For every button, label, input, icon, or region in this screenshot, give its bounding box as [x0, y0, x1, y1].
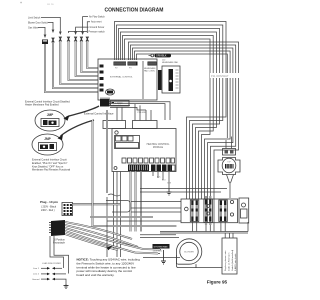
module top cover connectors — [103, 104, 157, 129]
connector gas valve plug — [42, 40, 48, 45]
bus group1 wire a — [115, 22, 227, 200]
jumper callout ellipse 2 — [32, 134, 63, 155]
svg-text:MEMBRANE PAD: MEMBRANE PAD — [162, 61, 179, 64]
wire fan from receptacle — [65, 222, 160, 254]
wire 3 — [60, 41, 98, 84]
svg-text:PAD CONN.: PAD CONN. — [144, 70, 155, 73]
svg-text:Heater Membrane Pad Enabled: Heater Membrane Pad Enabled — [25, 104, 59, 107]
wire 5 — [76, 41, 98, 76]
bus group2 wire e — [137, 54, 228, 138]
connector 4 — [67, 37, 69, 41]
svg-text:P11 ORN/WHT: P11 ORN/WHT — [211, 74, 229, 78]
arrow to ellipse 2 — [61, 120, 95, 136]
wire 1 — [45, 44, 98, 92]
squiggle crossing — [108, 194, 120, 196]
horizontal wires to contactor — [140, 189, 227, 193]
svg-text:LOAD SIDE POWER: LOAD SIDE POWER — [42, 262, 61, 265]
svg-text:Figure 95: Figure 95 — [207, 279, 228, 284]
bus group2 wire c — [133, 48, 233, 222]
svg-text:GRN: GRN — [167, 183, 172, 185]
box U1 external control interface — [98, 59, 157, 100]
svg-text:P14 GRN: P14 GRN — [138, 112, 147, 114]
bus group2 wire b — [131, 45, 236, 222]
svg-text:Blower Door Switch: Blower Door Switch — [28, 21, 49, 24]
harness verticals — [93, 110, 177, 257]
svg-text:External Control Interface: External Control Interface — [84, 112, 114, 116]
svg-text:Switch (field installed): Switch (field installed) — [231, 250, 234, 271]
svg-text:Auto reset: Auto reset — [91, 21, 102, 24]
bus group1 wire d — [121, 32, 217, 199]
label auto reset — [87, 21, 102, 33]
bus group1 wire e — [123, 36, 214, 200]
svg-text:JMP: JMP — [44, 137, 51, 141]
connector J2 strip — [148, 62, 157, 66]
callout text enabled — [32, 159, 71, 172]
blower label black tag — [153, 244, 170, 253]
svg-text:Receptacle: Receptacle — [53, 242, 66, 245]
arrow to ellipse 1 — [67, 106, 100, 117]
wire 4 — [69, 41, 99, 80]
bus to blower top — [160, 222, 248, 233]
wires near tall box — [213, 222, 215, 232]
bus white label band — [210, 73, 243, 78]
bus group1 wire f — [125, 39, 211, 199]
label limit switch — [28, 16, 61, 34]
left edge connectors of U1 — [100, 65, 104, 92]
jumper location on board — [106, 89, 115, 95]
svg-text:Pressure switch: Pressure switch — [89, 30, 106, 33]
blower wires — [140, 235, 223, 268]
bus group1 wire b — [117, 25, 223, 199]
connector J1 strip a — [114, 62, 127, 70]
callout text disabled — [25, 101, 71, 107]
long lines from fan to right — [158, 250, 161, 254]
text membrane pad connector — [144, 67, 156, 73]
bus group2 wire a — [129, 42, 239, 222]
connector 6 — [80, 37, 82, 41]
right tall box rotated text — [222, 238, 237, 274]
bus group2 wire d — [135, 51, 231, 199]
svg-text:ORN/BLK: ORN/BLK — [156, 55, 167, 58]
wire 6 — [81, 41, 98, 72]
svg-text:Ground: Ground — [32, 278, 40, 281]
bus group1 wire c — [119, 29, 220, 200]
legend jumper box — [111, 101, 130, 107]
module bottom terminal strip — [114, 165, 175, 172]
ground below module — [167, 188, 172, 195]
svg-text:CONNECTION DIAGRAM: CONNECTION DIAGRAM — [105, 8, 164, 14]
svg-text:115V 60Hz: 115V 60Hz — [153, 251, 163, 253]
label pressure switch — [69, 30, 106, 33]
contactor pole 2 (tall) — [205, 196, 212, 225]
inner divider — [142, 61, 144, 99]
svg-text:co to: co to — [47, 2, 54, 6]
wires below module right with labels — [153, 172, 172, 189]
label ground screw — [75, 26, 105, 34]
blower scroll housing — [176, 239, 201, 268]
receptacle to junction wires — [50, 236, 69, 274]
wires below module mid — [131, 172, 142, 232]
NOTICE text — [77, 258, 141, 277]
jumper callout ellipse 1 — [35, 110, 65, 131]
receptacle block — [49, 220, 66, 245]
connector 3 — [59, 37, 61, 41]
right circles of contactor — [230, 200, 233, 216]
contactor box — [181, 199, 238, 223]
label air flow switch — [82, 16, 106, 35]
svg-text:SYSTEM FAN: SYSTEM FAN — [154, 246, 168, 249]
connector 5 — [75, 37, 77, 41]
ground symbol junction — [64, 284, 69, 289]
svg-text:Plug - 10 pin: Plug - 10 pin — [40, 200, 58, 204]
component with circle right of contactor — [239, 198, 249, 223]
label gas valve — [28, 27, 46, 37]
svg-text:Ground Screw: Ground Screw — [90, 26, 105, 29]
wire 2 — [53, 42, 98, 88]
svg-text:MODULE: MODULE — [153, 146, 164, 149]
plug face grid — [62, 203, 73, 216]
module text — [147, 143, 170, 149]
contactor pole 1 — [191, 201, 198, 222]
heating control module box — [112, 129, 176, 172]
svg-text:board and void the warranty.: board and void the warranty. — [77, 273, 115, 277]
contactor pole 3 — [220, 201, 227, 222]
svg-text:Gas Valve: Gas Valve — [28, 27, 39, 29]
receptacle connector P4 — [100, 98, 110, 107]
connector J1 strip b — [128, 62, 138, 70]
junction rows — [33, 262, 62, 270]
svg-text:Replace plenum wire: Replace plenum wire — [224, 250, 227, 271]
plug 10 pin text — [40, 200, 58, 212]
contactor pole bracket outlines — [190, 199, 227, 223]
label blower door switch — [28, 21, 54, 32]
wires below module left — [114, 172, 121, 258]
module bottom terminal labels — [122, 158, 175, 163]
wire label tag ORN/BLK — [149, 54, 172, 58]
wire P14 step — [110, 108, 146, 111]
wires from receptacle P4 going right — [110, 102, 171, 120]
wires below contactor — [192, 221, 233, 238]
horizontal links to contactor — [107, 202, 181, 222]
connector 2 — [52, 38, 54, 42]
svg-text:leads on Fireman's: leads on Fireman's — [228, 252, 231, 271]
svg-text:240V - Red ): 240V - Red ) — [41, 209, 55, 212]
svg-text:+: + — [20, 1, 22, 5]
svg-text:BLOWER: BLOWER — [184, 252, 194, 254]
connector 7 — [86, 37, 88, 41]
svg-text:Air Flow Switch: Air Flow Switch — [89, 16, 105, 19]
module fuse blocks — [115, 136, 140, 149]
svg-text:Membrane Pad Remains Functiona: Membrane Pad Remains Functional — [32, 169, 71, 172]
svg-text:EXTERNAL CONTROL: EXTERNAL CONTROL — [110, 76, 134, 79]
wire 7 — [87, 41, 98, 68]
membrane pad ribbon connector — [158, 60, 180, 94]
igniter transformer component — [218, 137, 240, 199]
plug harness wires right — [73, 201, 131, 213]
svg-text:6 AWG wire leads: 6 AWG wire leads — [234, 253, 237, 271]
svg-text:Line 2: Line 2 — [33, 274, 40, 276]
wire pair to blower tag — [90, 216, 153, 218]
svg-text:JMP: JMP — [47, 113, 54, 117]
svg-text:Limit Switch: Limit Switch — [28, 16, 41, 19]
ground below blower label — [161, 250, 166, 264]
svg-text:Line 1: Line 1 — [33, 268, 40, 270]
arrow marker on fan — [107, 246, 113, 251]
